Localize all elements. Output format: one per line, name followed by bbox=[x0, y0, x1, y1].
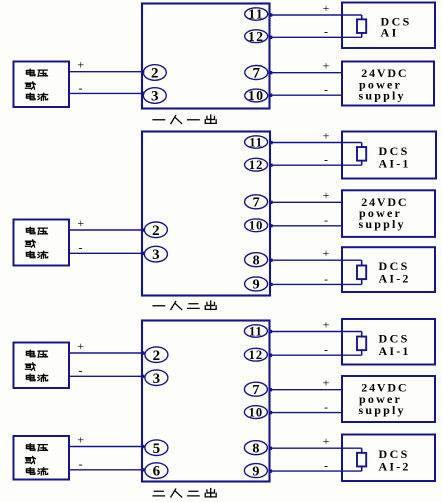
terminal 9 (U3) bbox=[244, 464, 267, 480]
terminal 3 (U3 input1 -) bbox=[145, 370, 168, 387]
terminal 2 (U2 input +) bbox=[144, 222, 167, 239]
terminal 2 (U3 input1 +) bbox=[145, 347, 168, 364]
terminal 10 (U2) bbox=[245, 219, 268, 233]
terminal 8 (U3) bbox=[244, 441, 267, 457]
junction U2 terminal 11 bbox=[269, 141, 272, 144]
svg-text:3: 3 bbox=[152, 247, 160, 263]
resistor (DCS AI input load) RL3b bbox=[357, 448, 366, 471]
wire U2 terminal 10 - to 24VDC supply bbox=[270, 225, 342, 227]
svg-text:5: 5 bbox=[153, 441, 161, 457]
DCS AI box (section 1) bbox=[342, 3, 435, 49]
sensor box S3a 电压或电流 (voltage or current source) bbox=[14, 343, 70, 389]
terminal 11 (U3) bbox=[244, 324, 267, 338]
24VDC power supply box (section 2) bbox=[342, 190, 435, 237]
terminal 3 (U1 input -) bbox=[143, 88, 166, 105]
terminal 11 (U2) bbox=[245, 135, 268, 149]
junction terminal 12 bbox=[269, 36, 272, 39]
svg-text:-: - bbox=[79, 241, 83, 255]
svg-text:AI-1: AI-1 bbox=[379, 344, 411, 358]
svg-text:10: 10 bbox=[248, 88, 265, 103]
label 或 (sensor S3b) bbox=[25, 456, 35, 463]
svg-text:+: + bbox=[323, 188, 330, 202]
svg-text:supply: supply bbox=[359, 217, 406, 231]
svg-text:AI-2: AI-2 bbox=[379, 460, 411, 474]
svg-text:-: - bbox=[79, 457, 83, 471]
svg-text:-: - bbox=[324, 213, 328, 227]
svg-text:7: 7 bbox=[253, 66, 261, 82]
label 电压 (sensor S3b) bbox=[26, 444, 47, 451]
junction U3 terminal 5 bbox=[141, 445, 144, 448]
label 或 (sensor S2) bbox=[25, 240, 35, 247]
svg-text:-: - bbox=[79, 81, 83, 95]
sensor box S2 电压或电流 (voltage or current source) bbox=[14, 220, 70, 266]
wire S1 + to terminal 2 bbox=[69, 71, 144, 73]
wire S1 - to terminal 3 bbox=[69, 92, 144, 94]
svg-text:11: 11 bbox=[248, 7, 264, 22]
junction U3 terminal 7 bbox=[269, 388, 272, 391]
DCS AI-2 box (section 2) bbox=[342, 247, 435, 292]
caption 一入一出 (one-in one-out) bbox=[153, 115, 216, 124]
svg-text:-: - bbox=[324, 153, 328, 167]
wire U3 terminal 12 - to DCS AI-1 bbox=[270, 354, 362, 356]
svg-text:+: + bbox=[323, 128, 330, 142]
wire S3a + to terminal 2 bbox=[69, 352, 145, 354]
svg-text:+: + bbox=[77, 58, 84, 72]
junction U3 terminal 9 bbox=[269, 469, 272, 472]
svg-text:+: + bbox=[323, 1, 330, 15]
junction U3 terminal 11 bbox=[269, 330, 272, 333]
label 电压 (sensor S1) bbox=[26, 69, 47, 76]
svg-text:+: + bbox=[77, 216, 84, 230]
terminal 11 (U1 output +) bbox=[245, 7, 268, 22]
24VDC power supply box (section 3) bbox=[342, 376, 435, 422]
terminal 10 (U1 power -) bbox=[245, 88, 268, 103]
svg-text:9: 9 bbox=[252, 464, 259, 479]
wire U3 terminal 9 - to DCS AI-2 bbox=[270, 470, 362, 472]
label 或 (sensor S3a) bbox=[25, 363, 35, 370]
svg-text:10: 10 bbox=[249, 219, 264, 233]
svg-text:11: 11 bbox=[249, 324, 263, 338]
svg-text:2: 2 bbox=[151, 66, 159, 82]
svg-text:3: 3 bbox=[151, 89, 159, 105]
wire U2 terminal 7 + to 24VDC supply bbox=[270, 201, 342, 203]
svg-text:+: + bbox=[323, 434, 330, 448]
label 电流 (sensor S1) bbox=[26, 93, 47, 100]
svg-text:supply: supply bbox=[359, 403, 406, 417]
resistor (DCS AI input load) RL1 bbox=[357, 15, 366, 37]
resistor (DCS AI input load) RL3a bbox=[357, 332, 366, 356]
svg-text:+: + bbox=[77, 432, 84, 446]
label 电流 (sensor S3b) bbox=[26, 468, 47, 475]
label 电流 (sensor S2) bbox=[26, 251, 47, 258]
junction U3 terminal 6 bbox=[141, 468, 144, 471]
svg-text:7: 7 bbox=[253, 196, 260, 211]
terminal 12 (U2) bbox=[245, 158, 268, 172]
svg-text:12: 12 bbox=[249, 158, 264, 172]
DCS AI-1 box (section 3) bbox=[342, 319, 435, 365]
resistor (DCS AI input load) RL2b bbox=[357, 260, 366, 284]
junction U2 terminal 3 bbox=[141, 252, 144, 255]
caption 二入二出 (two-in two-out) bbox=[153, 489, 216, 498]
svg-text:-: - bbox=[324, 272, 328, 286]
svg-text:7: 7 bbox=[252, 383, 259, 398]
svg-text:+: + bbox=[323, 59, 330, 73]
junction U2 terminal 12 bbox=[269, 164, 272, 167]
resistor (DCS AI input load) RL2a bbox=[357, 143, 366, 166]
svg-text:-: - bbox=[324, 83, 328, 97]
junction U3 terminal 3 bbox=[141, 375, 144, 378]
junction terminal 7 bbox=[269, 71, 272, 74]
svg-text:12: 12 bbox=[248, 29, 265, 44]
wire U2 terminal 8 + to DCS AI-2 bbox=[270, 259, 362, 261]
svg-text:+: + bbox=[323, 246, 330, 260]
wire U3 terminal 11 + to DCS AI-1 bbox=[270, 331, 362, 333]
wire S2 + to terminal 2 bbox=[69, 229, 145, 231]
wire U2 terminal 11 + to DCS AI-1 bbox=[270, 142, 362, 144]
24VDC power supply box (section 1) bbox=[342, 62, 434, 106]
terminal 12 (U1 output -) bbox=[245, 29, 268, 44]
label 电流 (sensor S3a) bbox=[26, 374, 47, 381]
label 电压 (sensor S2) bbox=[26, 227, 47, 234]
terminal 10 (U3) bbox=[244, 405, 267, 419]
junction terminal 3 bbox=[141, 92, 144, 95]
terminal 2 (U1 input +) bbox=[143, 65, 166, 82]
svg-text:AI-2: AI-2 bbox=[379, 272, 411, 286]
junction U3 terminal 10 bbox=[269, 411, 272, 414]
DCS AI-1 box (section 2) bbox=[342, 132, 436, 179]
terminal 12 (U3) bbox=[244, 348, 267, 362]
junction U2 terminal 10 bbox=[269, 224, 272, 227]
svg-text:2: 2 bbox=[153, 348, 161, 364]
wire U3 terminal 8 + to DCS AI-2 bbox=[270, 447, 362, 449]
junction terminal 2 bbox=[141, 70, 144, 73]
label 电压 (sensor S3a) bbox=[26, 350, 47, 357]
wire U2 terminal 12 - to DCS AI-1 bbox=[270, 164, 362, 166]
wire terminal 7 + to 24VDC supply bbox=[270, 72, 343, 74]
wire S3a - to terminal 3 bbox=[69, 375, 145, 377]
svg-text:9: 9 bbox=[253, 278, 260, 293]
svg-text:+: + bbox=[77, 339, 84, 353]
svg-text:-: - bbox=[324, 25, 328, 39]
junction U2 terminal 2 bbox=[141, 228, 144, 231]
svg-text:6: 6 bbox=[153, 464, 161, 480]
junction U2 terminal 8 bbox=[269, 259, 272, 262]
junction U3 terminal 8 bbox=[269, 447, 272, 450]
svg-text:-: - bbox=[324, 400, 328, 414]
svg-text:8: 8 bbox=[253, 253, 260, 268]
terminal 6 (U3 input2 -) bbox=[145, 463, 168, 480]
wire S3b + to terminal 5 bbox=[69, 446, 145, 448]
svg-text:-: - bbox=[324, 459, 328, 473]
svg-text:+: + bbox=[323, 376, 330, 390]
svg-text:12: 12 bbox=[249, 348, 264, 362]
junction U3 terminal 12 bbox=[269, 354, 272, 357]
wire U3 terminal 10 - to 24VDC supply bbox=[270, 412, 343, 414]
terminal 9 (U2) bbox=[245, 277, 268, 293]
svg-text:-: - bbox=[79, 364, 83, 378]
wire S3b - to terminal 6 bbox=[69, 469, 145, 471]
svg-text:3: 3 bbox=[153, 371, 161, 387]
svg-text:AI: AI bbox=[381, 25, 399, 39]
svg-text:supply: supply bbox=[359, 88, 406, 102]
svg-text:11: 11 bbox=[249, 135, 263, 149]
main module box U1 (isolator 一入一出) bbox=[142, 4, 270, 109]
sensor box S3b 电压或电流 (voltage or current source) bbox=[14, 436, 70, 480]
svg-text:-: - bbox=[324, 343, 328, 357]
wire terminal 12 - to DCS AI bbox=[270, 36, 362, 38]
wire U2 terminal 9 - to DCS AI-2 bbox=[270, 283, 362, 285]
junction terminal 10 bbox=[269, 94, 272, 97]
terminal 7 (U1 power +) bbox=[245, 66, 268, 82]
svg-text:2: 2 bbox=[152, 223, 160, 239]
wire S2 - to terminal 3 bbox=[69, 252, 145, 254]
terminal 5 (U3 input2 +) bbox=[145, 440, 168, 457]
wire U3 terminal 7 + to 24VDC supply bbox=[270, 389, 343, 391]
main module box U2 (isolator 一入二出) bbox=[142, 132, 270, 296]
junction U2 terminal 7 bbox=[269, 201, 272, 204]
junction terminal 11 bbox=[269, 13, 272, 16]
terminal 7 (U2) bbox=[245, 195, 268, 211]
svg-text:10: 10 bbox=[249, 405, 264, 419]
terminal 7 (U3) bbox=[244, 382, 267, 398]
junction U2 terminal 9 bbox=[269, 283, 272, 286]
terminal 8 (U2) bbox=[245, 253, 268, 269]
svg-text:+: + bbox=[323, 317, 330, 331]
label 或 (sensor S1) bbox=[25, 82, 35, 89]
DCS AI-2 box (section 3) bbox=[342, 435, 435, 482]
terminal 3 (U2 input -) bbox=[144, 246, 167, 263]
wire terminal 10 - to 24VDC supply bbox=[270, 94, 343, 96]
svg-text:AI-1: AI-1 bbox=[379, 157, 411, 171]
sensor box S1 电压或电流 (voltage or current source) bbox=[14, 62, 70, 108]
caption 一入二出 (one-in two-out) bbox=[153, 301, 216, 310]
junction U3 terminal 2 bbox=[141, 351, 144, 354]
main module box U3 (isolator 二入二出) bbox=[142, 321, 270, 482]
wire terminal 11 + to DCS AI bbox=[270, 14, 362, 16]
svg-text:8: 8 bbox=[252, 441, 259, 456]
